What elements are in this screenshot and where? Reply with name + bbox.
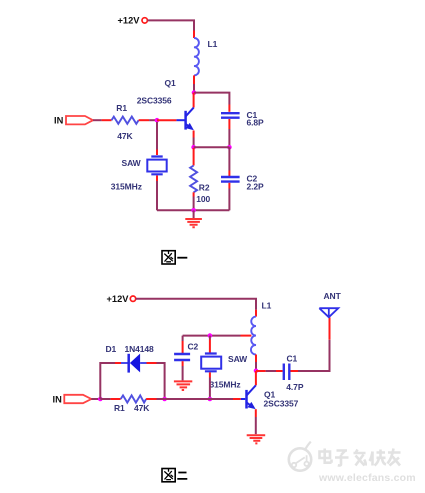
wire C2 branch top [228,147,230,176]
svg-text:R1: R1 [116,103,127,113]
port IN (fig2) [64,395,91,403]
node junction ground rail [191,208,196,213]
svg-text:2.2P: 2.2P [247,182,265,192]
wire node to SAW top [156,122,158,155]
watermark [289,442,311,471]
value 4.7P [286,382,304,392]
label C1 [247,110,258,120]
label Q1 (fig1) [165,78,177,88]
wire +12V rail to L1 top [148,20,194,38]
svg-text:315MHz: 315MHz [210,380,241,390]
label IN (fig2) [53,395,63,405]
transistor Q1 (fig1) NPN [176,108,196,133]
inductor L1 (fig2) [251,317,256,355]
svg-text:D1: D1 [106,344,117,354]
wire R1 to base node [139,119,157,121]
wire C2 bottom to rail [228,183,230,211]
svg-text:IN: IN [53,395,63,405]
value 47K (fig2) [134,403,150,413]
node junction C1/C2 [227,145,232,150]
svg-text:2SC3356: 2SC3356 [137,96,172,106]
wire emitter down to node [193,131,195,148]
wire node to C1 top [194,93,229,112]
svg-text:47K: 47K [117,131,133,141]
svg-text:Q1: Q1 [165,78,177,88]
bottom rail wire (fig1) [157,209,229,211]
label SAW (fig1) [122,158,142,168]
inductor L1 (fig1) [194,38,199,75]
label Q1 (fig2) [264,390,276,400]
wire node to R2 top [193,148,195,166]
svg-text:SAW: SAW [228,354,248,364]
svg-text:47K: 47K [134,403,150,413]
svg-text:2SC3357: 2SC3357 [264,398,299,408]
wire R2 bottom to ground rail [193,192,195,210]
value 6.8P [247,117,265,127]
svg-text:1N4148: 1N4148 [125,344,155,354]
label C2 (fig2) [188,342,199,352]
wire D1 to right corner down [147,363,165,399]
label R1 (fig1) [116,103,127,113]
SAW resonator (fig1) [147,157,166,175]
wire tap node to SAW top (fig2) [209,336,211,353]
value 2SC3356 [137,96,172,106]
ground under Q1 emitter (fig2) [247,435,266,443]
net label +12V (fig1) [118,16,141,26]
label R2 [199,183,210,193]
capacitor C1 (fig1) [221,113,240,118]
label C2 (fig1) [247,174,258,184]
power terminal circle (fig2) [130,296,135,301]
SAW resonator (fig2) [201,354,221,372]
label L1 (fig1) [208,39,218,49]
wire base rail to Q1 (fig2) [165,398,241,400]
node junction D1/R1 right (fig2) [162,397,167,402]
label ANT [324,291,342,301]
node junction port/D1/R1 (fig2) [98,397,103,402]
svg-text:ANT: ANT [324,291,342,301]
value 100 [196,194,210,204]
svg-text:IN: IN [54,116,64,126]
value 47K (fig1) [117,131,133,141]
svg-text:C1: C1 [287,354,298,364]
wire C1 right to antenna [291,317,330,371]
label C1 (fig2) [287,354,298,364]
wire L1 bottom to node (fig2) [255,355,257,371]
wire +12V rail to L1 top (fig2) [136,299,256,317]
transistor Q1 (fig2) NPN [241,385,258,412]
svg-text:R2: R2 [199,183,210,193]
caption 图二 [162,469,187,482]
wire emitter to ground (fig2) [255,409,257,434]
svg-text:+12V: +12V [118,16,141,26]
wire collector pin up to node (fig2) [255,371,257,385]
label IN (fig1) [54,116,64,126]
wire port to node (fig2) [91,398,100,400]
value 315MHz (fig2) [210,380,241,390]
wire R1 to right node (fig2) [146,398,165,400]
ground under C2 (fig2) [174,381,192,390]
wire SAW bottom to rail [156,176,158,211]
value 2.2P [247,182,265,192]
label SAW (fig2) [228,354,248,364]
wire C1 bottom to emitter node [228,119,230,147]
svg-text:C2: C2 [188,342,199,352]
svg-text:www.elecfans.com: www.elecfans.com [318,472,416,484]
label L1 (fig2) [262,301,272,311]
svg-text:+12V: +12V [107,294,130,304]
wire port to R1 [93,119,112,121]
capacitor C2 (fig2) [174,354,190,360]
svg-text:6.8P: 6.8P [247,117,265,127]
wire inductor tap line [183,335,252,337]
node junction L1/collector/C1 (fig2) [254,369,259,374]
wire collector pin Q1 [193,93,195,108]
ground (fig1) [185,210,202,227]
svg-text:4.7P: 4.7P [286,382,304,392]
svg-text:100: 100 [196,194,210,204]
capacitor C2 (fig1) [221,177,240,182]
wire base pin Q1 [157,119,176,121]
label R1 (fig2) [114,403,125,413]
antenna ANT [319,308,338,317]
diode D1 1N4148 [121,354,147,373]
wire node to C1 left (fig2) [256,370,283,372]
node junction base/SAW [155,118,160,123]
node junction L1/collector/C1 [192,90,197,95]
wire emitter node to C1C2 node [194,146,230,148]
resistor R2 [190,166,197,193]
svg-text:315MHz: 315MHz [111,182,142,192]
svg-text:L1: L1 [208,39,218,49]
resistor R1 (fig2) [121,395,146,402]
svg-text:R1: R1 [114,403,125,413]
svg-text:L1: L1 [262,301,272,311]
wire C2 bottom to ground (fig2) [182,361,184,380]
caption 图一 [162,251,187,264]
wire SAW bottom to base rail (fig2) [209,372,211,399]
resistor R1 (fig1) [112,117,139,124]
port IN (fig1) [66,116,93,124]
wire node to R1 (fig2) [100,398,120,400]
svg-text:SAW: SAW [122,158,142,168]
label D1 [106,344,117,354]
wire L1 bottom to collector node [193,75,195,92]
wire tap corner to C2 top (fig2) [182,336,184,353]
wire node up to D1 branch [100,363,121,399]
node junction emitter/R2 [191,145,196,150]
node junction SAW/base rail (fig2) [208,397,213,402]
capacitor C1 (fig2) [284,364,290,381]
value 1N4148 [125,344,155,354]
value 315MHz (fig1) [111,182,142,192]
power terminal circle (fig1) [142,18,147,23]
node junction tap/SAW (fig2) [208,333,213,338]
value 2SC3357 [264,398,299,408]
net label +12V (fig2) [107,294,130,304]
